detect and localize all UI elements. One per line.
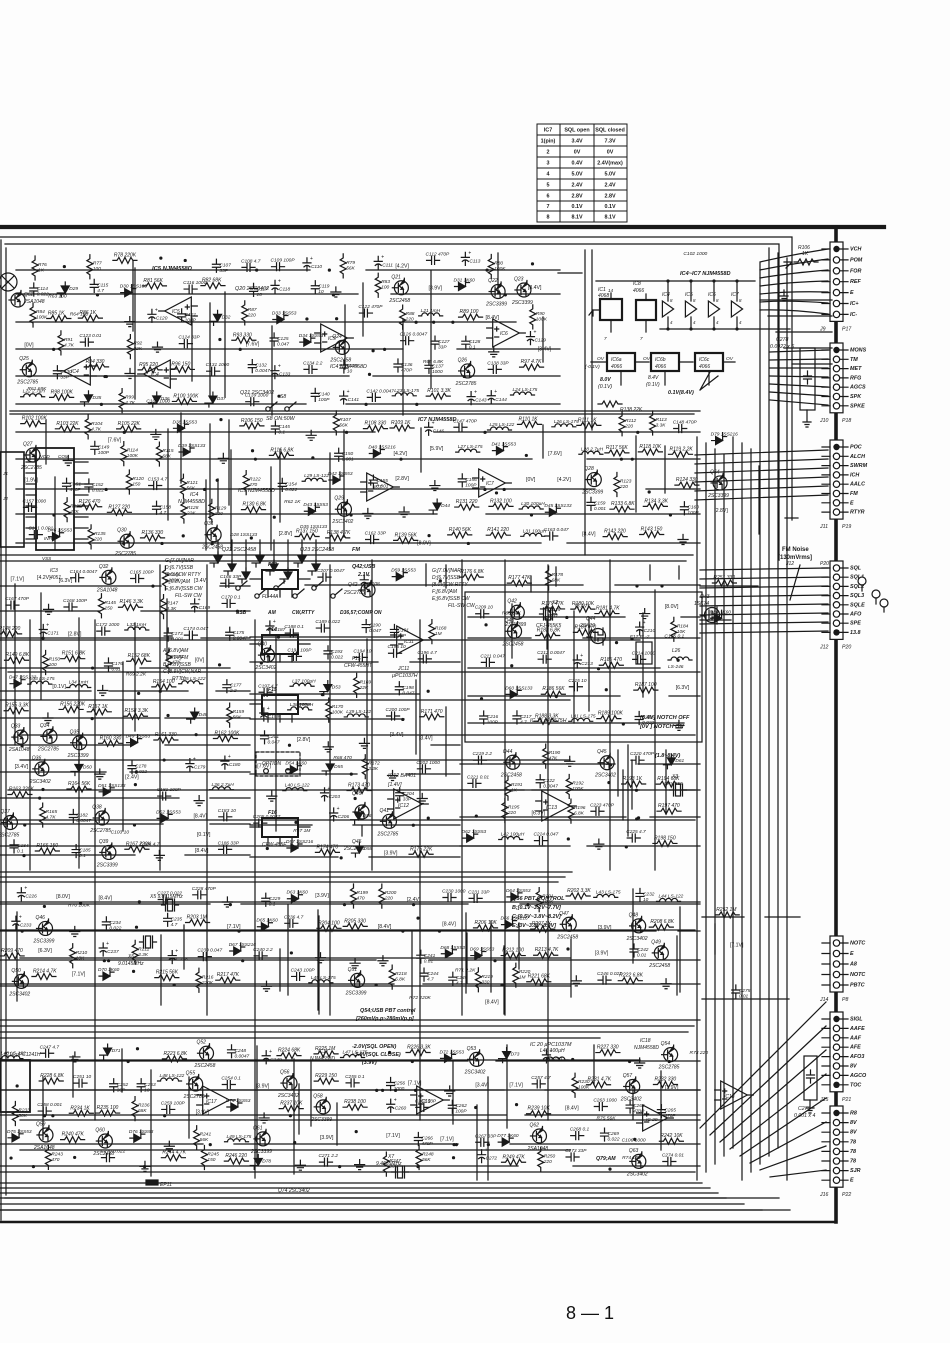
connector pin FM	[833, 490, 839, 496]
resistor R151	[61, 656, 85, 662]
capacitor C268	[571, 1132, 584, 1140]
op-amp IC6	[493, 319, 520, 347]
junction	[411, 1060, 414, 1063]
resistor R189	[597, 716, 621, 722]
junction	[349, 513, 352, 516]
junction	[648, 490, 651, 493]
svg-text:33P: 33P	[438, 345, 447, 351]
svg-text:R89 100: R89 100	[460, 309, 479, 315]
svg-text:C180: C180	[229, 762, 241, 768]
svg-text:330: 330	[389, 1164, 397, 1170]
resistor R139	[394, 537, 418, 543]
capacitor C244	[420, 968, 428, 981]
svg-text:D79 1SS216: D79 1SS216	[711, 432, 739, 438]
svg-text:220: 220	[624, 423, 633, 429]
svg-text:L30 100µH: L30 100µH	[521, 501, 545, 507]
svg-text:C227 0.022: C227 0.022	[157, 890, 182, 896]
svg-text:SQL open: SQL open	[564, 128, 589, 134]
junction	[503, 488, 506, 491]
svg-text:R164 56K: R164 56K	[68, 781, 91, 787]
svg-text:D52 1SS53: D52 1SS53	[156, 809, 181, 815]
svg-text:R129: R129	[215, 505, 227, 511]
svg-text:[8.0V]: [8.0V]	[665, 604, 679, 610]
svg-text:470: 470	[356, 896, 364, 902]
svg-text:C149: C149	[98, 444, 110, 450]
ground	[565, 756, 575, 766]
resistor R159	[227, 703, 233, 727]
capacitor C126	[401, 337, 414, 345]
svg-text:56K: 56K	[233, 715, 242, 721]
svg-text:L26: L26	[672, 648, 681, 654]
ground	[95, 769, 105, 779]
ground	[445, 1086, 455, 1096]
junction	[567, 837, 570, 840]
resistor R157	[87, 709, 111, 715]
svg-text:R202 3.3K: R202 3.3K	[567, 888, 591, 894]
svg-text:LS-246: LS-246	[668, 664, 684, 670]
resistor R102	[21, 421, 45, 427]
svg-text:+: +	[175, 949, 178, 955]
capacitor C176	[104, 658, 112, 671]
resistor R132	[489, 503, 513, 509]
resistor R215	[155, 975, 179, 981]
junction	[375, 983, 378, 986]
svg-text:D62 1SS53: D62 1SS53	[462, 829, 487, 835]
diode D38	[173, 420, 188, 432]
svg-text:F;[6.8V]AM: F;[6.8V]AM	[432, 589, 458, 595]
svg-text:C185: C185	[79, 848, 91, 854]
svg-text:R238 100: R238 100	[344, 1099, 366, 1105]
wire S3-left row 1	[0, 610, 250, 612]
diode D61	[663, 754, 675, 769]
ground	[151, 429, 161, 439]
op-amp IC5b	[321, 324, 348, 352]
capacitor C209	[476, 610, 489, 618]
svg-text:D43 1SS53: D43 1SS53	[303, 502, 328, 508]
svg-text:8 — 1: 8 — 1	[566, 1303, 614, 1323]
ground	[43, 713, 53, 723]
svg-text:R87: R87	[248, 307, 257, 313]
svg-text:7.3V: 7.3V	[604, 139, 615, 145]
svg-text:2SC3402: 2SC3402	[29, 779, 51, 785]
svg-text:D35: D35	[92, 395, 101, 401]
capacitor C112	[427, 256, 440, 264]
svg-text:Q51: Q51	[348, 967, 358, 973]
svg-text:100: 100	[381, 285, 389, 291]
svg-text:AAFE: AAFE	[849, 1026, 865, 1032]
transistor Q57	[626, 1079, 640, 1093]
svg-text:R213 4.7K: R213 4.7K	[535, 947, 559, 953]
svg-text:C117: C117	[257, 286, 268, 292]
connector pin SQL	[833, 565, 839, 571]
svg-text:RTYR: RTYR	[850, 510, 865, 516]
resistor R104	[85, 415, 91, 439]
wire S2-ic7row row 0	[16, 431, 700, 433]
junction	[340, 856, 343, 859]
svg-text:[3.9V]: [3.9V]	[315, 893, 329, 899]
svg-text:D80 1K60: D80 1K60	[710, 609, 732, 615]
capacitor C160	[680, 502, 688, 515]
transistor Q23	[517, 283, 531, 297]
transistor Q54	[664, 1048, 678, 1062]
capacitor C195	[389, 649, 402, 657]
capacitor C242	[630, 944, 638, 957]
svg-text:R209 470: R209 470	[1, 948, 23, 954]
wire long verticals	[30, 560, 655, 1178]
resistor R247	[383, 1152, 389, 1176]
resistor R183	[573, 629, 597, 635]
svg-text:C203: C203	[329, 794, 341, 800]
junction	[293, 1141, 296, 1144]
diode D48	[187, 708, 199, 723]
svg-text:R135: R135	[94, 531, 106, 537]
svg-text:10: 10	[347, 369, 353, 375]
svg-text:0.047: 0.047	[369, 628, 381, 634]
junction	[620, 458, 623, 461]
ground	[350, 958, 360, 968]
capacitor C108	[242, 263, 255, 271]
svg-text:[2.4V]: [2.4V]	[125, 774, 139, 780]
diode D67	[230, 943, 245, 955]
capacitor C278 0.0022 x6	[800, 348, 815, 410]
resistor R175	[409, 851, 433, 857]
svg-text:2SC3402: 2SC3402	[277, 1093, 299, 1099]
svg-text:C137: C137	[432, 363, 444, 369]
svg-text:2SC3399: 2SC3399	[581, 490, 603, 496]
resistor R116	[269, 452, 293, 458]
svg-text:[2.4V]: [2.4V]	[407, 897, 421, 903]
svg-text:TOC: TOC	[850, 1082, 861, 1088]
svg-text:[8.4V]: [8.4V]	[565, 1105, 579, 1111]
svg-text:IC5: IC5	[685, 292, 693, 298]
resistor R129	[209, 499, 215, 523]
op-amp IC4a	[64, 357, 91, 385]
resistor R222	[618, 978, 642, 984]
svg-text:220: 220	[619, 484, 628, 490]
capacitor C130	[53, 366, 61, 379]
wire S3-mid row 0	[250, 636, 398, 638]
svg-text:4.7: 4.7	[427, 977, 434, 983]
fet Q43	[705, 608, 720, 623]
svg-text:SWRM: SWRM	[850, 463, 868, 469]
svg-text:4.7K: 4.7K	[91, 426, 102, 432]
svg-text:A8: A8	[849, 962, 857, 968]
svg-text:C178: C178	[135, 764, 147, 770]
svg-text:33P: 33P	[60, 374, 69, 380]
diode D45	[545, 504, 560, 516]
capacitor C186	[219, 845, 232, 853]
junction	[622, 722, 625, 725]
svg-text:[0.1V]: [0.1V]	[197, 832, 211, 838]
junction	[132, 970, 135, 973]
connector pin SPE	[833, 620, 839, 626]
svg-text:C177: C177	[230, 683, 242, 689]
capacitor C110 (electrolytic)	[303, 258, 311, 271]
svg-text:RFG: RFG	[850, 375, 862, 381]
ground	[315, 953, 325, 963]
svg-text:220K: 220K	[201, 980, 214, 986]
connector pin SQL2	[833, 583, 839, 589]
capacitor C259	[162, 1105, 175, 1113]
svg-text:L25 LS-122: L25 LS-122	[489, 422, 514, 428]
transistor Q47	[562, 917, 576, 931]
wire S4-pbt row 1	[0, 930, 700, 932]
svg-text:C131 1000: C131 1000	[206, 362, 230, 368]
resistor R113	[650, 411, 656, 435]
junction	[20, 744, 23, 747]
svg-text:R172: R172	[368, 761, 380, 767]
svg-text:R128: R128	[187, 505, 199, 511]
svg-text:C146: C146	[433, 428, 445, 434]
wire S5-bottom row 2	[0, 1114, 700, 1116]
inductor L30	[519, 506, 543, 509]
svg-text:J12: J12	[785, 561, 794, 567]
svg-text:R195: R195	[508, 804, 520, 810]
wire S3-left row 4	[0, 690, 250, 692]
svg-text:2SC3399: 2SC3399	[310, 1117, 332, 1123]
transistor Q45	[600, 756, 614, 770]
wire S3-left row 8	[0, 797, 250, 799]
capacitor C261	[416, 1103, 429, 1111]
transistor Q33	[14, 730, 28, 744]
svg-text:C229: C229	[269, 896, 281, 902]
junction	[143, 1165, 146, 1168]
svg-text:Q74 2SC3402: Q74 2SC3402	[278, 1188, 310, 1194]
svg-text:R94 330: R94 330	[86, 359, 105, 365]
capacitor C266	[414, 1132, 422, 1145]
svg-text:C199: C199	[268, 714, 280, 720]
connector pin SJR	[833, 1167, 839, 1173]
transistor Q22	[491, 285, 505, 299]
connector J10 P18 body	[830, 343, 843, 413]
svg-text:Q56: Q56	[280, 1070, 290, 1076]
svg-text:8V: 8V	[850, 1130, 857, 1136]
resistor R224	[277, 1053, 301, 1059]
svg-text:R111 1K: R111 1K	[578, 417, 597, 423]
junction	[250, 536, 253, 539]
svg-text:8.1V: 8.1V	[604, 215, 615, 221]
svg-text:R243: R243	[51, 1151, 63, 1157]
capacitor C122	[359, 309, 372, 317]
capacitor C146 (electrolytic)	[425, 422, 433, 435]
svg-text:R109 1K: R109 1K	[391, 420, 411, 426]
resistor R221	[527, 979, 551, 985]
svg-text:R78 220K: R78 220K	[114, 252, 137, 258]
svg-text:R132 100: R132 100	[490, 498, 512, 504]
resistor R148	[0, 631, 22, 637]
diode D72	[441, 1050, 456, 1062]
transistor Q55	[189, 1077, 203, 1091]
svg-text:C150: C150	[342, 451, 354, 457]
svg-text:L38 100µH: L38 100µH	[290, 702, 314, 708]
junction	[332, 293, 335, 296]
svg-text:C158: C158	[160, 504, 172, 510]
svg-text:R90: R90	[536, 311, 545, 317]
ground	[259, 1113, 269, 1123]
resistor R244	[161, 1155, 185, 1161]
svg-text:[8.4V]: [8.4V]	[193, 813, 207, 819]
svg-text:POC: POC	[850, 445, 862, 451]
svg-text:68K: 68K	[138, 1108, 147, 1114]
svg-text:IC7: IC7	[486, 481, 494, 487]
capacitor C161	[29, 531, 42, 539]
svg-text:C193: C193	[331, 649, 343, 655]
junction	[63, 265, 66, 268]
svg-text:9.0145MHz: 9.0145MHz	[118, 961, 144, 967]
svg-text:Q30: Q30	[117, 528, 127, 534]
ground	[262, 981, 272, 991]
svg-text:C162 33P: C162 33P	[365, 531, 387, 537]
junction	[135, 926, 138, 929]
transistor Q40	[261, 648, 275, 662]
svg-text:0.047: 0.047	[402, 690, 414, 696]
svg-text:[260mVp.p~280mVp.p]: [260mVp.p~280mVp.p]	[355, 1016, 414, 1022]
svg-text:Q23: Q23	[514, 276, 524, 282]
inductor L36	[210, 787, 234, 790]
svg-text:2SA1048: 2SA1048	[526, 1146, 548, 1152]
junction	[209, 1143, 212, 1146]
svg-text:R231 4.7K: R231 4.7K	[588, 1077, 612, 1083]
resistor R228	[39, 1078, 63, 1084]
svg-text:[7.1V]: [7.1V]	[386, 1133, 400, 1139]
svg-text:[1.9V]: [1.9V]	[24, 478, 38, 484]
transistor Q52	[200, 1046, 214, 1060]
svg-text:R120: R120	[132, 476, 144, 482]
svg-text:IC12: IC12	[398, 803, 409, 809]
inductor L48	[158, 1078, 182, 1081]
resistor R251	[712, 580, 736, 586]
svg-text:C109 100P: C109 100P	[271, 258, 296, 264]
ground	[306, 430, 316, 440]
svg-text:+: +	[533, 330, 536, 336]
capacitor C129 (electrolytic)	[526, 332, 534, 345]
wire S3-rightspill row 1	[700, 619, 731, 621]
svg-text:C121: C121	[185, 312, 197, 318]
ceramic filter F14	[262, 635, 298, 654]
svg-text:[4.2V]: [4.2V]	[557, 477, 571, 483]
svg-text:AM: AM	[267, 610, 277, 616]
capacitor C207	[318, 573, 331, 581]
svg-text:R155 3.3K: R155 3.3K	[5, 703, 29, 709]
svg-text:L45 LS-175: L45 LS-175	[311, 975, 336, 981]
resistor R184	[671, 617, 677, 641]
svg-text:R252 1M: R252 1M	[716, 907, 737, 913]
svg-text:Q28: Q28	[584, 466, 594, 472]
svg-text:[3.4V]: [3.4V]	[475, 1083, 489, 1089]
svg-text:[7.6V]: [7.6V]	[108, 438, 122, 444]
capacitor C153	[149, 481, 162, 489]
junction	[328, 269, 331, 272]
capacitor C118 (electrolytic)	[271, 280, 279, 293]
svg-text:R247: R247	[389, 1158, 401, 1164]
capacitor C253	[137, 1079, 145, 1092]
diode D49	[127, 735, 142, 747]
svg-text:L29 LS-122: L29 LS-122	[304, 473, 329, 479]
junction	[427, 690, 430, 693]
svg-text:AAF: AAF	[849, 1035, 862, 1041]
svg-text:C213: C213	[581, 661, 593, 667]
svg-text:R130 6.8K: R130 6.8K	[242, 502, 266, 508]
junction	[432, 321, 435, 324]
resistor R133	[610, 506, 634, 512]
junction	[609, 763, 612, 766]
svg-text:C215 10: C215 10	[568, 678, 586, 684]
resistor R109	[390, 425, 414, 431]
svg-text:Q36: Q36	[32, 755, 42, 761]
wire S3-mid row 2	[250, 693, 419, 695]
capacitor C134	[304, 365, 317, 373]
op-amp IC13	[542, 791, 571, 821]
resistor R246	[224, 1158, 248, 1164]
IC8 4066 logic gate	[636, 300, 656, 320]
connector pin IC-	[833, 311, 839, 317]
wire S2-rightspill verticals	[758, 466, 760, 534]
svg-text:R228 6.8K: R228 6.8K	[40, 1073, 64, 1079]
connector pin RTYR	[833, 509, 839, 515]
svg-text:4066: 4066	[611, 364, 622, 370]
svg-text:C196 4.7: C196 4.7	[417, 650, 437, 656]
svg-text:Q50: Q50	[11, 968, 21, 974]
junction	[52, 348, 55, 351]
svg-text:[3.9V]: [3.9V]	[428, 286, 442, 292]
resistor R201	[536, 888, 542, 912]
capacitor C227	[158, 895, 171, 903]
junction	[608, 1168, 611, 1171]
resistor R154	[152, 684, 176, 690]
ground	[399, 507, 409, 517]
junction	[134, 783, 137, 786]
svg-text:E: E	[850, 951, 854, 957]
svg-text:C249: C249	[270, 1057, 282, 1063]
inductor L45	[309, 980, 333, 983]
junction	[455, 1143, 458, 1146]
svg-text:33P: 33P	[219, 268, 228, 274]
svg-text:R223 6.8K: R223 6.8K	[163, 1051, 187, 1057]
transistor Q46	[39, 921, 53, 935]
svg-text:L26 LS-175: L26 LS-175	[554, 419, 579, 425]
svg-text:D42 1SS53: D42 1SS53	[328, 471, 353, 477]
wire S3-left row 6	[0, 744, 250, 746]
junction	[219, 418, 222, 421]
svg-text:+: +	[328, 786, 331, 792]
svg-text:R161 330: R161 330	[155, 732, 177, 738]
junction	[368, 373, 371, 376]
resistor R220	[513, 963, 519, 987]
svg-text:0V: 0V	[607, 150, 614, 156]
capacitor C199 (electrolytic)	[260, 708, 268, 721]
svg-text:P8: P8	[842, 997, 848, 1003]
junction	[414, 321, 417, 324]
svg-text:C182: C182	[76, 812, 88, 818]
svg-text:3.3K: 3.3K	[368, 766, 379, 772]
diode D31 1SS133	[252, 552, 264, 567]
svg-text:R196: R196	[574, 805, 586, 811]
svg-text:R139 56K: R139 56K	[395, 532, 418, 538]
svg-text:G;[7.0V]NAR: G;[7.0V]NAR	[165, 558, 194, 564]
svg-text:220: 220	[247, 312, 256, 318]
svg-text:R77: R77	[93, 261, 102, 267]
connector pin AFE	[833, 1044, 839, 1050]
capacitor C258	[38, 1107, 51, 1115]
svg-text:L33 LS-175: L33 LS-175	[30, 676, 55, 682]
svg-text:R180 10K: R180 10K	[572, 601, 595, 607]
resistor R107	[333, 411, 339, 435]
capacitor C131	[207, 367, 220, 375]
svg-text:R170: R170	[332, 704, 344, 710]
op-amp IC4b	[144, 360, 171, 388]
svg-text:Q47: Q47	[559, 911, 569, 917]
wire S3-mid row 8	[250, 856, 460, 858]
